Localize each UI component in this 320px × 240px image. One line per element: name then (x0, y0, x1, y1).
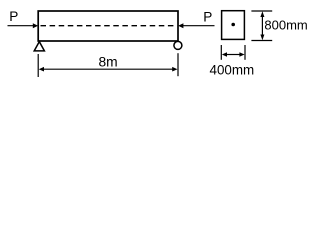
svg-text:400mm: 400mm (210, 63, 255, 78)
cross-section rectangle (222, 11, 245, 40)
force arrow left (8, 23, 39, 28)
force arrow right (178, 23, 214, 28)
dimension line 800mm (vertical double arrow) (260, 11, 264, 40)
pin support (triangle) (34, 42, 44, 51)
beam outline (38, 11, 178, 41)
tick top (800mm) (251, 10, 272, 12)
beam centerline (dashed) (41, 25, 177, 27)
extension line right (400mm) (244, 45, 246, 60)
tick bottom (800mm) (251, 40, 272, 42)
dimension line 8m (39, 67, 178, 72)
dimension line 400mm (222, 52, 245, 57)
extension line left (37, 54, 39, 77)
extension line left (400mm) (220, 45, 222, 60)
centroid dot (231, 23, 235, 27)
svg-text:800mm: 800mm (264, 17, 307, 32)
extension line right (177, 53, 179, 76)
svg-text:P: P (9, 9, 18, 24)
svg-text:P: P (203, 9, 212, 24)
svg-text:8m: 8m (99, 55, 118, 70)
roller support (circle) (174, 41, 182, 49)
